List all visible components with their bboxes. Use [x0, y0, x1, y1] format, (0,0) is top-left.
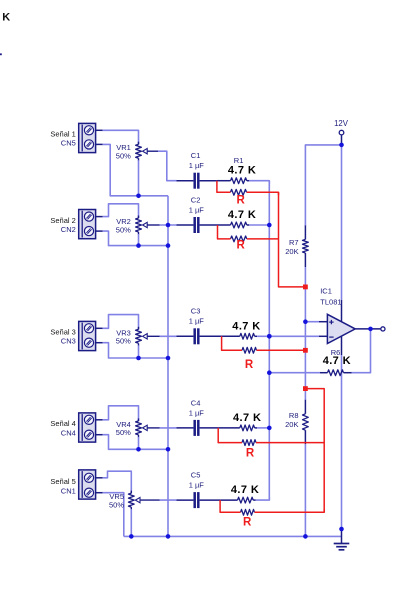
resistor 4.7 K (channel 2): [218, 222, 250, 228]
svg-text:50%: 50%: [116, 225, 131, 234]
wire VR4 bottom lead to ground bus: [138, 437, 140, 449]
svg-text:TL081: TL081: [320, 297, 341, 306]
connector CN: CN1 (Señal 5): [79, 470, 103, 499]
wire R6 to output: [352, 331, 371, 373]
wire connector CN1 top to VR5: [103, 471, 132, 493]
svg-text:CN3: CN3: [61, 337, 76, 346]
junction VR1 bottom on ground bus: [136, 194, 141, 199]
wire summing bus vertical: [268, 181, 270, 500]
wire bias rail R8 to bottom bus: [304, 444, 306, 536]
stray cropped wire stub: [0, 53, 2, 55]
junction VR4 bottom on ground bus: [136, 447, 141, 452]
capacitor C1 1 µF: [177, 173, 217, 189]
wire VR3 wiper to C3: [160, 335, 177, 337]
wire VR1 bottom lead to ground bus: [138, 160, 140, 196]
wire red bus (channels 1-2) to bias node: [279, 192, 306, 287]
connector CN: CN5 (Señal 1): [79, 123, 103, 152]
svg-text:Señal 1: Señal 1: [50, 130, 75, 139]
svg-text:CN1: CN1: [61, 487, 76, 496]
wire connector CN1 bottom to main ground bus: [103, 493, 124, 537]
svg-text:CN5: CN5: [61, 138, 76, 147]
svg-text:4.7 K: 4.7 K: [232, 320, 260, 332]
junction VR3 bottom on ground bus: [136, 356, 141, 361]
svg-text:R: R: [245, 359, 254, 371]
svg-text:50%: 50%: [116, 337, 131, 346]
resistor R (bias, channel 2): [231, 236, 247, 242]
svg-text:4.7 K: 4.7 K: [228, 209, 256, 221]
junction ground chain / channel-2 bus: [166, 243, 171, 248]
junction VR5 bottom on ground bus: [129, 534, 134, 539]
wire connector top to VR2: [103, 204, 139, 218]
wire VR5 bottom lead to ground bus: [130, 509, 132, 536]
junction red channel 3 on bias rail: [303, 348, 308, 353]
junction 12V node: [339, 143, 344, 148]
svg-text:C4: C4: [191, 398, 201, 407]
resistor R (bias, channel 1): [230, 189, 246, 195]
junction summing bus / - input: [267, 334, 272, 339]
svg-text:Señal 4: Señal 4: [50, 419, 75, 428]
svg-text:C5: C5: [191, 471, 201, 480]
wire red channel 3 to bias node: [257, 349, 306, 351]
svg-text:K: K: [2, 12, 10, 24]
resistor 4.7 K (channel 4): [218, 425, 257, 431]
svg-text:R: R: [237, 240, 246, 252]
wire channel-4 resistor output to summing bus: [257, 427, 269, 429]
junction channel-3 on summing bus: [267, 334, 272, 339]
resistor R7 20K: [303, 226, 309, 268]
terminal output: [381, 327, 385, 331]
resistor 4.7 K (channel 5): [220, 497, 256, 503]
svg-text:Señal 3: Señal 3: [50, 328, 75, 337]
wire bias node to op-amp + input: [305, 321, 319, 323]
wire VR2 wiper to C2: [160, 224, 177, 226]
wire connector top to VR4: [103, 406, 139, 421]
svg-text:R: R: [246, 448, 255, 460]
potentiometer VR2 50%: [136, 216, 160, 235]
wire op-amp V- to ground: [341, 336, 343, 355]
wire R1 output to summing bus: [249, 181, 269, 184]
svg-text:4.7 K: 4.7 K: [323, 355, 351, 367]
junction bias rail on bottom bus: [303, 534, 308, 539]
svg-text:CN2: CN2: [61, 225, 76, 234]
resistor R6 4.7K: [320, 370, 352, 376]
svg-text:1 µF: 1 µF: [189, 317, 205, 326]
resistor R (bias, channel 4): [242, 440, 256, 446]
svg-text:50%: 50%: [116, 152, 131, 161]
op-amp IC1 TL081: [327, 314, 355, 343]
junction red bus 1 on bias rail: [303, 285, 308, 290]
capacitor C3 1 µF: [177, 328, 222, 344]
wire red channel 5 to red bus 2: [255, 509, 325, 512]
svg-text:1 µF: 1 µF: [189, 205, 205, 214]
capacitor C2 1 µF: [177, 217, 218, 233]
svg-text:C1: C1: [191, 151, 201, 160]
capacitor C4 1 µF: [177, 420, 219, 436]
wire red channel 4 to red bus 2: [256, 442, 324, 444]
svg-text:R: R: [243, 516, 252, 528]
wire summing bus to R6: [269, 372, 320, 374]
resistor R (bias, channel 5): [241, 509, 255, 515]
wire VR1 wiper to C1: [158, 151, 177, 181]
potentiometer VR4 50%: [136, 418, 160, 437]
wire connector CN5 bottom to channel-1 ground bus: [103, 144, 168, 195]
wire red branch channel 1: [217, 181, 231, 193]
wire connector top to VR3: [103, 315, 139, 330]
svg-text:CN4: CN4: [61, 429, 76, 438]
wire op-amp output: [355, 328, 380, 330]
ground: [334, 529, 350, 550]
svg-text:R1: R1: [234, 156, 244, 165]
wire connector CN5 top to VR1: [103, 130, 139, 144]
potentiometer VR3 50%: [136, 327, 160, 346]
wire connector bottom to channel-4 ground bus: [103, 435, 168, 450]
svg-text:4.7 K: 4.7 K: [228, 165, 256, 177]
connector CN: CN3 (Señal 3): [79, 321, 103, 350]
svg-text:20K: 20K: [285, 247, 298, 256]
wire VR3 bottom lead to ground bus: [138, 345, 140, 358]
potentiometer VR1 50%: [136, 142, 160, 161]
junction output node: [368, 327, 373, 332]
svg-text:1 µF: 1 µF: [189, 481, 205, 490]
wire VR2 bottom lead to ground bus: [138, 234, 140, 246]
svg-text:12V: 12V: [334, 119, 349, 128]
wire channel-2 resistor output to summing bus: [249, 224, 269, 226]
wire red bus (channels 4-5) to bias node: [305, 389, 324, 513]
wire ground chain vertical: [167, 196, 169, 537]
junction ground rail / ground symbol: [339, 527, 344, 532]
resistor R8 20K: [303, 400, 309, 444]
junction VR2 bottom on ground bus: [136, 243, 141, 248]
wire VR4 wiper to C4: [160, 427, 177, 429]
svg-text:C2: C2: [191, 195, 201, 204]
wire summing node to op-amp - input: [269, 335, 319, 337]
wire connector bottom to channel-2 ground bus: [103, 231, 168, 246]
wire red channel 2 to red bus: [247, 238, 279, 240]
junction channel-2 on summing bus: [267, 223, 272, 228]
wire connector bottom to channel-3 ground bus: [103, 343, 168, 358]
svg-text:C3: C3: [191, 307, 201, 316]
connector CN: CN2 (Señal 2): [79, 210, 103, 239]
svg-text:20K: 20K: [285, 420, 298, 429]
junction bias / op-amp + input: [303, 319, 308, 324]
wire red branch channel 3: [222, 336, 242, 350]
svg-text:IC1: IC1: [320, 286, 332, 295]
svg-text:Señal 2: Señal 2: [50, 216, 75, 225]
junction red bus 2 on bias rail: [303, 386, 308, 391]
wire channel-5 resistor output to summing bus: [256, 497, 270, 500]
svg-text:R7: R7: [289, 238, 299, 247]
wire red branch channel 4: [218, 428, 242, 443]
svg-text:1 µF: 1 µF: [189, 408, 205, 417]
svg-text:50%: 50%: [109, 500, 124, 509]
resistor R1 4.7 K (channel 1): [217, 178, 249, 184]
junction ground chain / channel-3 bus: [166, 356, 171, 361]
wire VR5 wiper to C5: [160, 499, 177, 501]
wire bias rail R7 to R8: [304, 267, 306, 400]
wire channel-3 resistor output to summing bus: [257, 335, 269, 337]
junction summing bus / R6: [267, 370, 272, 375]
wire red branch channel 5: [220, 500, 240, 512]
svg-text:R: R: [237, 195, 246, 207]
capacitor C5 1 µF: [177, 492, 221, 508]
wire red branch channel 2: [218, 225, 231, 239]
svg-text:1 µF: 1 µF: [189, 161, 205, 170]
junction ground chain / VR2 wiper: [166, 223, 171, 228]
junction ground chain / channel-4 bus: [166, 447, 171, 452]
potentiometer VR5 50%: [128, 491, 159, 510]
resistor 4.7 K (channel 3): [222, 333, 258, 339]
wire main ground bus: [124, 535, 342, 537]
wire 12V to R7: [305, 145, 341, 226]
junction channel-4 on summing bus: [267, 426, 272, 431]
resistor R (bias, channel 3): [242, 347, 257, 353]
wire 12V rail to op-amp V+: [341, 145, 343, 300]
svg-text:50%: 50%: [116, 428, 131, 437]
junction ground chain / bottom bus: [166, 534, 171, 539]
connector CN: CN4 (Señal 4): [79, 413, 103, 442]
svg-text:R8: R8: [289, 411, 299, 420]
svg-text:Señal 5: Señal 5: [50, 477, 75, 486]
svg-text:4.7 K: 4.7 K: [233, 412, 261, 424]
wire red channel 1 to red bus: [247, 192, 279, 195]
svg-text:4.7 K: 4.7 K: [231, 484, 259, 496]
